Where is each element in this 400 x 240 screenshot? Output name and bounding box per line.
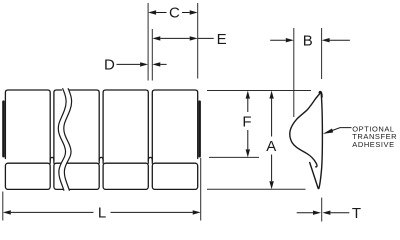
- ext line C/E right x=197.7: [197, 3, 199, 79]
- pad 1 bottom row: [5, 163, 50, 189]
- pad 2 bottom row: [54, 163, 99, 189]
- pad 3 top row: [103, 90, 148, 163]
- ext line L right x=200.7: [200, 158, 202, 221]
- arrow A bottom: [269, 181, 273, 189]
- arrow F top: [246, 91, 250, 99]
- dim B line: [270, 39, 350, 41]
- ext line E left / D right x=152.3: [151, 29, 153, 81]
- arrow L right: [193, 210, 201, 214]
- arrow L left: [3, 210, 11, 214]
- pad 2 top row (broken by break lines): [54, 90, 62, 163]
- ext line top of strip y=90.5: [207, 90, 311, 92]
- arrow A top: [269, 91, 273, 99]
- tick T x=321.7: [321, 198, 323, 222]
- arrow C left: [148, 10, 156, 14]
- side profile top curl knob: [319, 91, 322, 94]
- svg-text:A: A: [266, 138, 276, 155]
- dim L line: [11, 211, 193, 213]
- arrow T right: [322, 211, 330, 215]
- ext line B right x=321.6: [321, 28, 323, 79]
- svg-text:L: L: [98, 205, 106, 222]
- break line left: [58, 88, 66, 190]
- right liner end bar: [198, 100, 201, 157]
- ext line B left x=293.8: [293, 28, 295, 117]
- pad 4 top row: [152, 90, 197, 163]
- ext line A bottom y=189.3: [207, 188, 306, 190]
- slot arch between pad2 and pad3: [99, 157, 103, 160]
- break line right: [64, 88, 72, 190]
- dim D lines: [117, 63, 167, 65]
- leader line adhesive: [331, 128, 352, 132]
- arrow E left: [152, 36, 160, 40]
- dim C line: [156, 12, 190, 14]
- svg-text:B: B: [303, 33, 313, 50]
- ext line F bottom y=157.4: [209, 156, 259, 158]
- dim A line: [271, 99, 273, 182]
- arrow F bottom: [246, 149, 250, 157]
- arrow B right: [322, 38, 330, 42]
- arrow C right: [190, 10, 198, 14]
- arrow adhesive leader: [323, 129, 333, 134]
- dim T line: [297, 212, 350, 214]
- break ribbon white-out: [61, 88, 69, 190]
- ext line C left / D left x=148.1: [147, 3, 149, 81]
- arrow B left: [286, 38, 294, 42]
- left liner end bar: [2, 100, 5, 157]
- side profile back line and bottom V: [310, 93, 323, 189]
- dim E line: [160, 37, 213, 39]
- svg-text:E: E: [217, 31, 227, 48]
- slot arch between pad1 and pad2: [50, 157, 54, 160]
- arrow E right: [190, 36, 198, 40]
- side profile finger curve: [290, 91, 322, 166]
- svg-text:ADHESIVE: ADHESIVE: [352, 140, 394, 149]
- arrow D right: [152, 62, 160, 66]
- arrow T left: [313, 211, 321, 215]
- dim F line: [247, 99, 249, 150]
- svg-text:D: D: [104, 57, 115, 74]
- pad 3 bottom row: [103, 163, 148, 189]
- svg-text:C: C: [169, 5, 180, 22]
- svg-text:T: T: [352, 205, 361, 222]
- pad 1 top row: [5, 90, 50, 163]
- svg-text:F: F: [242, 113, 251, 130]
- pad 4 bottom row: [152, 163, 197, 189]
- ext line L left x=2.8: [2, 192, 4, 221]
- slot arch between pad3 and pad4: [148, 157, 152, 160]
- arrow D left: [140, 62, 148, 66]
